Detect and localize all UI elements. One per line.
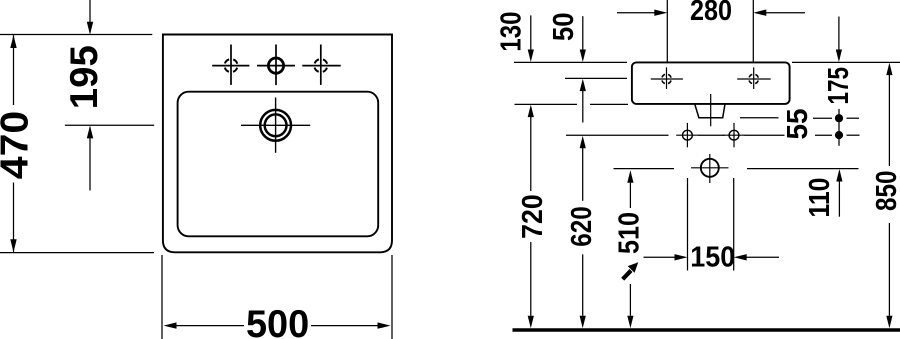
dimension 55 dots	[835, 114, 843, 139]
extension line rim level y62 left	[514, 61, 627, 63]
dimension 470 label	[0, 111, 37, 180]
svg-text:280: 280	[690, 0, 732, 27]
centerline through drain outlet (elevation)	[710, 94, 712, 126]
dimension 720 line	[528, 105, 534, 329]
center faucet hole (plan)	[257, 45, 295, 86]
extension line left (plan, 500)	[161, 255, 163, 339]
dimension 50 label	[548, 13, 580, 42]
extension line basin bottom y104	[515, 103, 629, 105]
left faucet mark (elevation)	[651, 67, 683, 89]
dimension 50 upper arrow	[580, 16, 586, 62]
svg-text:850: 850	[871, 171, 900, 212]
svg-text:720: 720	[517, 194, 549, 239]
dimension 280 extension line left	[666, 0, 668, 62]
adjustable height arrow symbol	[623, 262, 639, 279]
fixing hole left (elevation)	[676, 123, 698, 147]
dimension 510 line	[627, 170, 633, 328]
dimension 175 label	[823, 67, 855, 105]
dimension 500 label	[246, 303, 309, 339]
svg-text:195: 195	[63, 45, 106, 109]
svg-text:50: 50	[548, 13, 580, 42]
extension line bottom (plan, 470)	[0, 252, 154, 254]
dimension 55 label	[782, 109, 814, 140]
dimension 280 extension line right	[752, 0, 754, 62]
extension line drain level (plan, 195)	[65, 124, 154, 126]
dimension 470 line	[10, 35, 16, 252]
right faucet mark (elevation)	[737, 67, 771, 89]
dimension 175 line	[836, 17, 842, 146]
dimension 850 line	[886, 63, 892, 329]
drain trapezoid (elevation)	[695, 105, 725, 118]
dimension 150 extension line right	[733, 178, 735, 271]
svg-text:55: 55	[782, 109, 814, 140]
dimension 110 arrow	[836, 169, 842, 217]
svg-text:110: 110	[804, 178, 836, 218]
dimension 130 upper arrow	[528, 15, 534, 62]
washbasin body (elevation)	[632, 62, 790, 104]
extension line rim level y62 right	[792, 61, 900, 63]
svg-text:620: 620	[566, 206, 598, 247]
right faucet hole (plan)	[302, 45, 340, 85]
dimension 850 label	[871, 171, 900, 212]
dimension 195 label	[63, 45, 106, 109]
svg-text:470: 470	[0, 111, 37, 180]
extension line top (plan, 470)	[0, 34, 152, 36]
dimension 195 line	[87, 0, 93, 191]
dimension 510 label	[614, 212, 646, 254]
dimension 150 label	[690, 242, 735, 274]
extension line drain level y168	[614, 168, 859, 170]
fixing hole right (elevation)	[723, 123, 745, 147]
extension line tap level y78	[565, 77, 627, 79]
svg-text:150: 150	[690, 242, 735, 274]
dimension 280 line	[617, 10, 805, 16]
extension line fixing holes y135	[566, 134, 860, 136]
left faucet hole (plan)	[212, 45, 249, 85]
svg-text:130: 130	[496, 12, 528, 52]
drain circle (elevation)	[691, 154, 729, 183]
svg-text:175: 175	[823, 67, 855, 105]
dimension 50 lower arrow	[580, 79, 586, 123]
extension line right (plan, 500)	[391, 255, 393, 339]
dimension 620 label	[566, 206, 598, 247]
dimension 150 extension line left	[687, 178, 689, 271]
dimension 130 label	[496, 12, 528, 52]
svg-text:510: 510	[614, 212, 646, 254]
dimension 500 line	[164, 322, 391, 328]
dimension 110 label	[804, 178, 836, 218]
dimension 720 label	[517, 194, 549, 239]
svg-text:500: 500	[246, 303, 309, 339]
dimension 150 line	[644, 254, 780, 260]
dimension 620 line	[580, 136, 586, 328]
inner basin outline (plan view)	[178, 92, 379, 237]
dimension 280 label	[690, 0, 732, 27]
drain (plan view)	[241, 98, 310, 153]
floor line	[513, 328, 900, 331]
outer basin outline (plan view)	[163, 35, 392, 253]
extension line trapezoid bottom y118	[740, 117, 859, 119]
